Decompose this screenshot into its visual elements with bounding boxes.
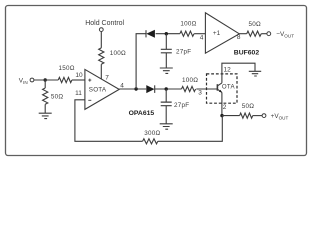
node +VOUT junction — [220, 114, 223, 117]
op-amp U2 BUF602 triangle — [205, 13, 239, 53]
capacitor C2 27pF — [161, 89, 172, 124]
svg-text:4: 4 — [200, 34, 204, 41]
svg-text:SOTA: SOTA — [89, 86, 107, 93]
svg-text:VIN: VIN — [19, 78, 28, 85]
svg-text:50Ω: 50Ω — [249, 21, 262, 28]
wire D1 to R4 — [156, 33, 180, 35]
wire R5 to OTA base — [196, 88, 217, 90]
terminal VIN — [30, 78, 34, 82]
wire R6 to -VOUT — [261, 33, 267, 35]
ground G3 — [160, 124, 173, 129]
svg-text:27pF: 27pF — [176, 48, 191, 55]
resistor R8 300ohm — [143, 139, 158, 144]
svg-text:300Ω: 300Ω — [144, 130, 160, 137]
terminal Hold Control — [99, 28, 103, 32]
capacitor C1 27pF — [161, 34, 172, 68]
svg-text:2: 2 — [223, 104, 227, 111]
ground G4 — [249, 71, 261, 76]
wire Q1 collector pin12 to ground — [222, 63, 255, 83]
resistor R3 100ohm vertical — [99, 48, 104, 64]
OTA dashed box — [207, 74, 238, 103]
diode D2 pointing right — [146, 85, 154, 93]
wire Q1 emitter pin2 down — [221, 92, 223, 115]
node middle junction C — [165, 87, 168, 90]
svg-text:+1: +1 — [213, 30, 221, 37]
wire SOTA pin11 feedback left — [75, 100, 143, 142]
wire D2 to R5 — [154, 88, 181, 90]
svg-text:11: 11 — [75, 90, 82, 97]
wire SOTA output pin4 — [119, 88, 146, 90]
wire BUF output — [239, 33, 246, 35]
svg-text:4: 4 — [120, 82, 124, 89]
resistor R7 50ohm — [240, 113, 253, 118]
terminal +VOUT — [262, 114, 266, 118]
wire node to R2 — [44, 80, 46, 88]
wire R8 to +VOUT node — [158, 116, 223, 142]
op-amp U1 SOTA triangle — [85, 69, 119, 109]
node output junction A — [134, 87, 137, 90]
ground G2 — [160, 68, 173, 73]
transistor Q1 OTA — [217, 83, 222, 93]
svg-text:−VOUT: −VOUT — [276, 31, 294, 38]
wire VIN to R1 — [34, 79, 58, 81]
wire R1 to SOTA pin10 — [72, 79, 85, 81]
resistor R5 100ohm — [182, 86, 196, 91]
wire node to R7 — [222, 115, 240, 117]
svg-text:12: 12 — [224, 67, 232, 74]
plus sign input — [88, 79, 91, 82]
wire R2 to ground — [44, 104, 46, 113]
resistor R2 50ohm vertical — [43, 88, 48, 104]
node VIN-input junction — [44, 78, 47, 81]
svg-text:100Ω: 100Ω — [180, 21, 196, 28]
wire R3 to SOTA pin7 — [100, 64, 102, 79]
border frame — [6, 6, 307, 156]
svg-text:OPA615: OPA615 — [129, 110, 155, 117]
svg-text:100Ω: 100Ω — [110, 50, 126, 57]
svg-text:BUF602: BUF602 — [234, 50, 260, 57]
wire Hold to R3 — [100, 32, 102, 48]
svg-text:50Ω: 50Ω — [242, 103, 255, 110]
svg-text:150Ω: 150Ω — [59, 65, 75, 72]
svg-text:+VOUT: +VOUT — [271, 113, 289, 120]
ground G1 — [39, 113, 52, 118]
svg-text:OTA: OTA — [222, 84, 236, 91]
resistor R6 50ohm — [247, 31, 261, 36]
wire junction A up to top branch — [136, 34, 146, 89]
svg-text:100Ω: 100Ω — [182, 77, 198, 84]
resistor R4 100ohm — [180, 31, 194, 36]
svg-text:50Ω: 50Ω — [51, 93, 64, 100]
svg-text:3: 3 — [198, 89, 202, 96]
svg-text:10: 10 — [75, 72, 83, 79]
wire R4 to BUF input — [194, 33, 205, 35]
diode D1 pointing left — [146, 30, 155, 38]
node top junction B — [165, 32, 168, 35]
svg-text:27pF: 27pF — [174, 102, 189, 109]
wire R7 to +VOUT — [253, 115, 262, 117]
svg-text:8: 8 — [237, 34, 241, 41]
svg-text:Hold Control: Hold Control — [85, 20, 124, 27]
svg-text:7: 7 — [105, 75, 109, 82]
resistor R1 150ohm — [58, 77, 72, 82]
terminal -VOUT — [267, 32, 271, 36]
minus sign input — [88, 99, 91, 101]
